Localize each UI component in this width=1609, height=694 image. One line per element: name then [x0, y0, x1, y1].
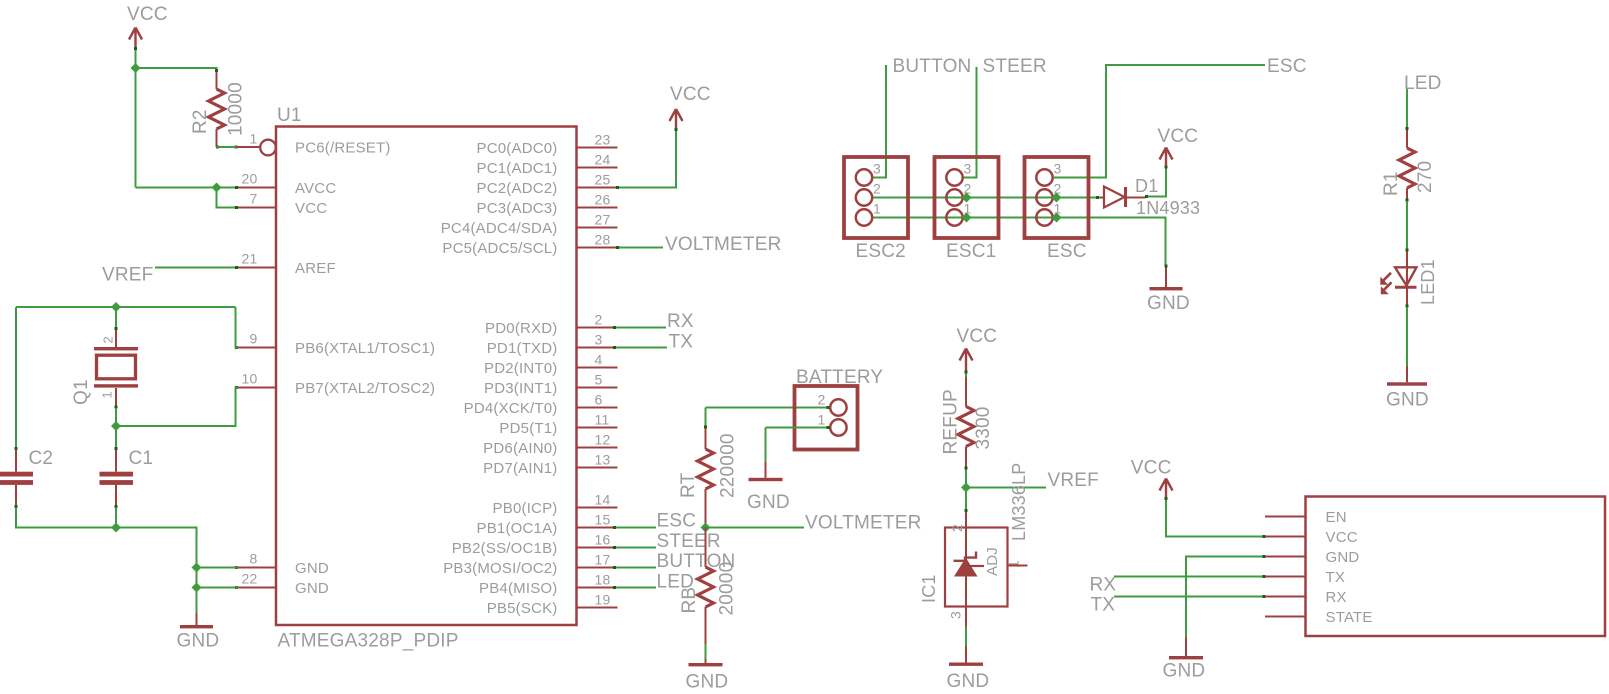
- svg-text:Q1: Q1: [71, 379, 92, 405]
- svg-text:10: 10: [242, 371, 258, 387]
- diode D1 1N4933: [1100, 197, 1104, 199]
- svg-text:VCC: VCC: [127, 4, 168, 25]
- zener diode symbol inside IC1: [965, 528, 967, 607]
- svg-text:2: 2: [873, 181, 881, 197]
- svg-text:PD5(T1): PD5(T1): [499, 420, 557, 437]
- svg-text:22: 22: [242, 571, 258, 587]
- svg-text:LM336LP: LM336LP: [1009, 463, 1029, 541]
- svg-text:IC1: IC1: [919, 574, 939, 603]
- U1 pin 19 PB5(SCK): [577, 607, 618, 609]
- svg-text:ESC: ESC: [657, 511, 697, 532]
- svg-text:ESC: ESC: [1047, 241, 1087, 262]
- svg-text:TX: TX: [1326, 569, 1346, 586]
- svg-text:23: 23: [595, 132, 611, 148]
- IC IC1 LM336LP body: [945, 528, 1008, 607]
- svg-text:PD7(AIN1): PD7(AIN1): [483, 460, 557, 477]
- svg-text:270: 270: [1415, 161, 1436, 193]
- VCC symbol above D1: [1160, 148, 1173, 167]
- resistor R2: [216, 71, 218, 89]
- wire junction to VOLTMETER label: [706, 527, 805, 529]
- svg-text:3300: 3300: [973, 406, 994, 449]
- junction crystal top node: [111, 302, 121, 312]
- svg-text:11: 11: [595, 412, 610, 428]
- junction GND pin8 node: [192, 563, 202, 573]
- svg-text:RX: RX: [1326, 589, 1347, 606]
- svg-text:GND: GND: [177, 631, 220, 652]
- svg-text:14: 14: [595, 492, 611, 508]
- wire pin 15 to ESC: [614, 527, 656, 529]
- svg-text:PB3(MOSI/OC2): PB3(MOSI/OC2): [443, 560, 557, 577]
- wire LED label to R1: [1406, 89, 1408, 128]
- svg-text:2: 2: [818, 392, 826, 408]
- wire battery pin1 to ground: [766, 427, 830, 429]
- svg-text:PB1(OC1A): PB1(OC1A): [477, 520, 558, 537]
- svg-text:STATE: STATE: [1326, 609, 1373, 626]
- crystal Q1 bottom pin: [115, 388, 117, 408]
- U1 pin 10 PB7(XTAL2/TOSC2): [236, 387, 276, 389]
- U1 pin 24 PC1(ADC1): [577, 167, 618, 169]
- svg-text:5: 5: [595, 372, 603, 388]
- U1 pin 18 PB4(MISO): [577, 587, 618, 589]
- svg-text:VCC: VCC: [1131, 458, 1172, 479]
- svg-text:GND: GND: [295, 580, 329, 597]
- capacitor C1: [115, 448, 117, 472]
- svg-text:16: 16: [595, 532, 611, 548]
- wire GND net bottom-left: [16, 508, 197, 614]
- resistor R2 zigzag: [209, 89, 225, 129]
- svg-text:ESC1: ESC1: [946, 241, 996, 262]
- svg-text:9: 9: [250, 331, 258, 347]
- resistor RT: [705, 428, 707, 449]
- svg-text:GND: GND: [947, 671, 990, 692]
- svg-text:R2: R2: [190, 109, 211, 134]
- ground bottom-right module: [1185, 637, 1187, 656]
- svg-text:PD0(RXD): PD0(RXD): [485, 320, 557, 337]
- svg-text:EN: EN: [1326, 509, 1347, 526]
- U1 pin 2 PD0(RXD): [577, 327, 618, 329]
- svg-text:U1: U1: [277, 105, 302, 126]
- wire D1 cathode to VCC: [1146, 166, 1167, 197]
- module pin GND: [1265, 556, 1306, 558]
- svg-text:1: 1: [818, 412, 826, 428]
- wire REFUP bottom to IC1 pin 2: [965, 467, 967, 512]
- svg-text:PC6(/RESET): PC6(/RESET): [295, 140, 391, 157]
- svg-text:STEER: STEER: [983, 56, 1047, 77]
- svg-text:PB2(SS/OC1B): PB2(SS/OC1B): [452, 540, 558, 557]
- svg-text:24: 24: [595, 152, 611, 168]
- wire module GND pin to ground: [1186, 557, 1265, 638]
- U1 pin 23 PC0(ADC0): [577, 147, 618, 149]
- crystal Q1 plates and body: [94, 347, 138, 350]
- svg-text:6: 6: [595, 392, 603, 408]
- wire AVCC branch: [136, 187, 237, 189]
- connector ESC: [1025, 157, 1089, 238]
- svg-text:2: 2: [949, 524, 965, 532]
- svg-text:VCC: VCC: [1158, 126, 1199, 147]
- svg-text:C1: C1: [129, 448, 154, 469]
- IC1 pin 1 stub (ADJ): [1008, 565, 1028, 567]
- junction GND pin22 node: [192, 583, 202, 593]
- svg-text:19: 19: [595, 592, 611, 608]
- junction ESC pin1: [1052, 213, 1062, 223]
- module pin TX: [1265, 576, 1306, 578]
- svg-text:25: 25: [595, 172, 611, 188]
- wire pin 18 to LED: [614, 587, 656, 589]
- resistor REFUP: [965, 377, 967, 407]
- U1 pin 27 PC4(ADC4/SDA): [577, 227, 618, 229]
- U1 pin 20 AVCC: [236, 187, 276, 189]
- svg-text:3: 3: [873, 161, 881, 177]
- svg-text:15: 15: [595, 512, 611, 528]
- svg-text:PC4(ADC4/SDA): PC4(ADC4/SDA): [441, 220, 558, 237]
- svg-text:VOLTMETER: VOLTMETER: [665, 234, 782, 255]
- connector BATTERY: [795, 386, 858, 450]
- U1 pin 6 PD4(XCK/T0): [577, 407, 618, 409]
- svg-text:GND: GND: [1147, 293, 1190, 314]
- wire R2 to U1 pin 1: [217, 146, 237, 148]
- svg-text:LED: LED: [1404, 73, 1442, 94]
- svg-text:VREF: VREF: [1048, 470, 1099, 491]
- svg-text:PB6(XTAL1/TOSC1): PB6(XTAL1/TOSC1): [295, 340, 435, 357]
- resistor R1 zigzag: [1399, 148, 1415, 188]
- zener ADJ tap line: [970, 565, 984, 567]
- svg-text:26: 26: [595, 192, 611, 208]
- module pin VCC: [1265, 536, 1306, 538]
- wire pin2 bus to D1 anode: [873, 197, 1101, 199]
- svg-text:VCC: VCC: [957, 326, 998, 347]
- svg-text:VCC: VCC: [670, 84, 711, 105]
- svg-text:PC3(ADC3): PC3(ADC3): [477, 200, 558, 217]
- svg-text:RT: RT: [678, 472, 699, 498]
- svg-text:7: 7: [250, 191, 258, 207]
- wire VREF label: [966, 487, 1046, 489]
- svg-text:VOLTMETER: VOLTMETER: [805, 513, 922, 534]
- wire VCC pin branch: [217, 188, 237, 208]
- svg-text:220000: 220000: [718, 433, 739, 498]
- U1 pin 16 PB2(SS/OC1B): [577, 547, 618, 549]
- U1 pin 26 PC3(ADC3): [577, 207, 618, 209]
- wire STEER to ESC1 pin3: [964, 67, 977, 178]
- svg-text:PB7(XTAL2/TOSC2): PB7(XTAL2/TOSC2): [295, 380, 435, 397]
- junction RT/RB/VOLTMETER node: [701, 523, 711, 533]
- crystal Q1 top pin: [115, 328, 117, 347]
- svg-text:PC0(ADC0): PC0(ADC0): [477, 140, 558, 157]
- wire XTAL2 net: [116, 388, 238, 427]
- svg-text:3: 3: [595, 332, 603, 348]
- junction ESC1 pin1: [962, 213, 972, 223]
- svg-text:GND: GND: [1326, 549, 1360, 566]
- svg-text:2: 2: [595, 312, 603, 328]
- wire VCC to module VCC pin: [1166, 498, 1265, 537]
- svg-text:AVCC: AVCC: [295, 180, 336, 197]
- wire LED1 to ground: [1406, 307, 1408, 366]
- wire pin 17 to BUTTON: [614, 567, 656, 569]
- wire GND to U1 pin 8: [197, 567, 239, 569]
- svg-text:12: 12: [595, 432, 611, 448]
- VCC symbol right of U1: [670, 109, 683, 131]
- svg-text:PB4(MISO): PB4(MISO): [479, 580, 557, 597]
- svg-text:13: 13: [595, 452, 611, 468]
- svg-text:GND: GND: [1386, 390, 1429, 411]
- svg-text:20: 20: [242, 171, 258, 187]
- wire C1 bottom to GND net: [115, 508, 117, 528]
- svg-text:PC1(ADC1): PC1(ADC1): [477, 160, 558, 177]
- svg-text:2: 2: [101, 336, 116, 343]
- wire XTAL1 net horizontal: [16, 306, 236, 308]
- svg-text:17: 17: [595, 552, 611, 568]
- U1 pin 14 PB0(ICP): [577, 507, 618, 509]
- U1 pin 22 GND: [236, 587, 276, 589]
- ground under LED1: [1406, 366, 1408, 382]
- module pin RX: [1265, 596, 1306, 598]
- svg-text:VREF: VREF: [102, 265, 153, 286]
- IC1 pin 2 top pin: [965, 512, 967, 528]
- svg-text:PD2(INT0): PD2(INT0): [484, 360, 557, 377]
- VCC symbol bottom-right: [1160, 479, 1173, 498]
- svg-text:PB5(SCK): PB5(SCK): [487, 600, 558, 617]
- svg-text:4: 4: [595, 352, 603, 368]
- svg-text:ATMEGA328P_PDIP: ATMEGA328P_PDIP: [278, 631, 459, 652]
- U1 pin 17 PB3(MOSI/OC2): [577, 567, 618, 569]
- wire XTAL1 to pin 9: [236, 307, 239, 348]
- svg-text:GND: GND: [747, 492, 790, 513]
- svg-text:18: 18: [595, 572, 611, 588]
- svg-text:ADJ: ADJ: [984, 547, 1001, 576]
- wire GND to U1 pin 22: [197, 587, 239, 589]
- svg-text:20000: 20000: [717, 562, 738, 616]
- svg-text:RB: RB: [679, 587, 700, 614]
- svg-text:21: 21: [242, 251, 258, 267]
- U1 pin 15 PB1(OC1A): [577, 527, 618, 529]
- U1 pin 25 PC2(ADC2): [577, 187, 618, 189]
- svg-text:1N4933: 1N4933: [1136, 198, 1200, 218]
- svg-text:PD1(TXD): PD1(TXD): [487, 340, 558, 357]
- svg-text:PD6(AIN0): PD6(AIN0): [483, 440, 557, 457]
- svg-text:1: 1: [873, 201, 881, 217]
- junction ESC1 pin2: [962, 193, 972, 203]
- svg-text:R1: R1: [1381, 171, 1402, 196]
- wire pin 28 to VOLTMETER: [618, 247, 664, 249]
- svg-text:PC5(ADC5/SCL): PC5(ADC5/SCL): [442, 240, 557, 257]
- LED1 emission arrows: [1384, 273, 1392, 290]
- svg-text:PD3(INT1): PD3(INT1): [484, 380, 557, 397]
- module pin EN: [1265, 516, 1306, 518]
- ground under U1: [196, 613, 198, 625]
- svg-text:10000: 10000: [226, 82, 247, 136]
- U1 pin 11 PD5(T1): [577, 427, 618, 429]
- svg-text:3: 3: [1054, 161, 1062, 177]
- wire crystal top connection: [115, 307, 117, 329]
- wire ESC connector pin3 to ESC label: [1054, 65, 1265, 178]
- svg-text:27: 27: [595, 212, 611, 228]
- junction VCC/R2 node: [131, 63, 141, 73]
- wire pin 25 to VCC: [618, 131, 677, 188]
- resistor RT zigzag: [698, 449, 714, 489]
- junction ESC pin2: [1052, 193, 1062, 203]
- ground under IC1: [965, 646, 967, 663]
- svg-text:PC2(ADC2): PC2(ADC2): [477, 180, 558, 197]
- wire RB bottom to ground: [705, 644, 707, 659]
- wire pin 3 to TX: [614, 347, 667, 349]
- wire pin1 bus to ground: [873, 218, 1166, 268]
- svg-text:AREF: AREF: [295, 260, 336, 277]
- svg-text:ESC: ESC: [1267, 56, 1307, 77]
- svg-text:RX: RX: [667, 311, 694, 332]
- U1 pin 4 PD2(INT0): [577, 367, 618, 369]
- U1 pin 21 AREF: [236, 267, 276, 269]
- U1 pin 7 VCC: [236, 207, 276, 209]
- svg-text:RX: RX: [1090, 575, 1117, 596]
- wire VREF to AREF: [155, 267, 236, 269]
- svg-text:GND: GND: [686, 672, 729, 693]
- pin 1 inversion circle (/RESET): [260, 140, 276, 156]
- wire VCC to R2 top: [136, 68, 217, 72]
- U1 pin 1 stub: [236, 146, 261, 148]
- wire BUTTON to ESC2 pin3: [873, 65, 887, 178]
- svg-text:ESC2: ESC2: [856, 241, 906, 262]
- ground for ESC pin1 bus: [1165, 267, 1167, 287]
- svg-text:3: 3: [964, 161, 972, 177]
- U1 pin 8 GND: [236, 567, 276, 569]
- capacitor C2: [15, 448, 17, 472]
- U1 pin 12 PD6(AIN0): [577, 447, 618, 449]
- svg-text:8: 8: [250, 551, 258, 567]
- svg-text:TX: TX: [669, 332, 694, 353]
- svg-text:3: 3: [948, 611, 964, 619]
- svg-text:D1: D1: [1135, 176, 1158, 196]
- U1 pin 28 PC5(ADC5/SCL): [577, 247, 618, 249]
- svg-text:REFUP: REFUP: [941, 389, 962, 454]
- resistor RB zigzag: [698, 567, 714, 607]
- svg-text:1: 1: [100, 391, 115, 398]
- svg-text:GND: GND: [1163, 661, 1206, 682]
- U1 pin 3 PD1(TXD): [577, 347, 618, 349]
- VCC symbol top-left: [129, 28, 142, 48]
- svg-text:1: 1: [1006, 560, 1022, 568]
- module box bottom-right: [1306, 497, 1606, 637]
- svg-text:GND: GND: [295, 560, 329, 577]
- wire RX label to module TX pin: [1114, 576, 1265, 578]
- wire R1 to LED1: [1406, 201, 1408, 249]
- U1 pin 13 PD7(AIN1): [577, 467, 618, 469]
- resistor RB: [705, 528, 707, 568]
- wire battery pin2 to RT top: [706, 407, 830, 409]
- svg-text:PD4(XCK/T0): PD4(XCK/T0): [464, 400, 558, 417]
- module pin STATE: [1265, 616, 1306, 618]
- wire pin 16 to STEER: [614, 547, 656, 549]
- svg-text:BUTTON: BUTTON: [893, 56, 972, 77]
- ground under RB: [705, 659, 707, 663]
- wire VCC net top-left vertical: [135, 48, 137, 188]
- svg-text:PB0(ICP): PB0(ICP): [493, 500, 558, 517]
- U1 pin 5 PD3(INT1): [577, 387, 618, 389]
- svg-text:1: 1: [250, 131, 258, 147]
- junction VREF node: [961, 483, 971, 493]
- IC1 pin 3 to ground: [965, 607, 967, 628]
- ground under battery: [765, 462, 767, 478]
- svg-text:BATTERY: BATTERY: [796, 367, 883, 388]
- IC U1 ATMEGA328P body: [276, 127, 577, 626]
- resistor REFUP zigzag: [958, 407, 974, 447]
- wire TX label to module RX pin: [1114, 596, 1265, 598]
- svg-text:28: 28: [595, 232, 611, 248]
- wire VCC to REFUP: [965, 371, 967, 377]
- junction AVCC/VCC node: [212, 183, 222, 193]
- connector ESC1: [935, 157, 999, 238]
- svg-text:LED1: LED1: [1418, 259, 1438, 305]
- junction C1/GND node: [111, 523, 121, 533]
- wire pin 2 to RX: [614, 327, 666, 329]
- junction crystal bottom / C1 node: [111, 421, 121, 431]
- wire left drop to C2: [15, 307, 17, 448]
- svg-text:VCC: VCC: [1326, 529, 1358, 546]
- svg-text:TX: TX: [1091, 595, 1116, 616]
- svg-text:VCC: VCC: [295, 200, 327, 217]
- svg-text:C2: C2: [29, 448, 54, 469]
- svg-text:STEER: STEER: [657, 531, 721, 552]
- resistor R1: [1406, 128, 1408, 149]
- connector ESC2: [844, 157, 908, 238]
- U1 pin 9 PB6(XTAL1/TOSC1): [236, 347, 276, 349]
- diode LED1: [1406, 249, 1408, 287]
- VCC symbol above REFUP: [960, 349, 973, 372]
- wire C1 top: [115, 426, 117, 448]
